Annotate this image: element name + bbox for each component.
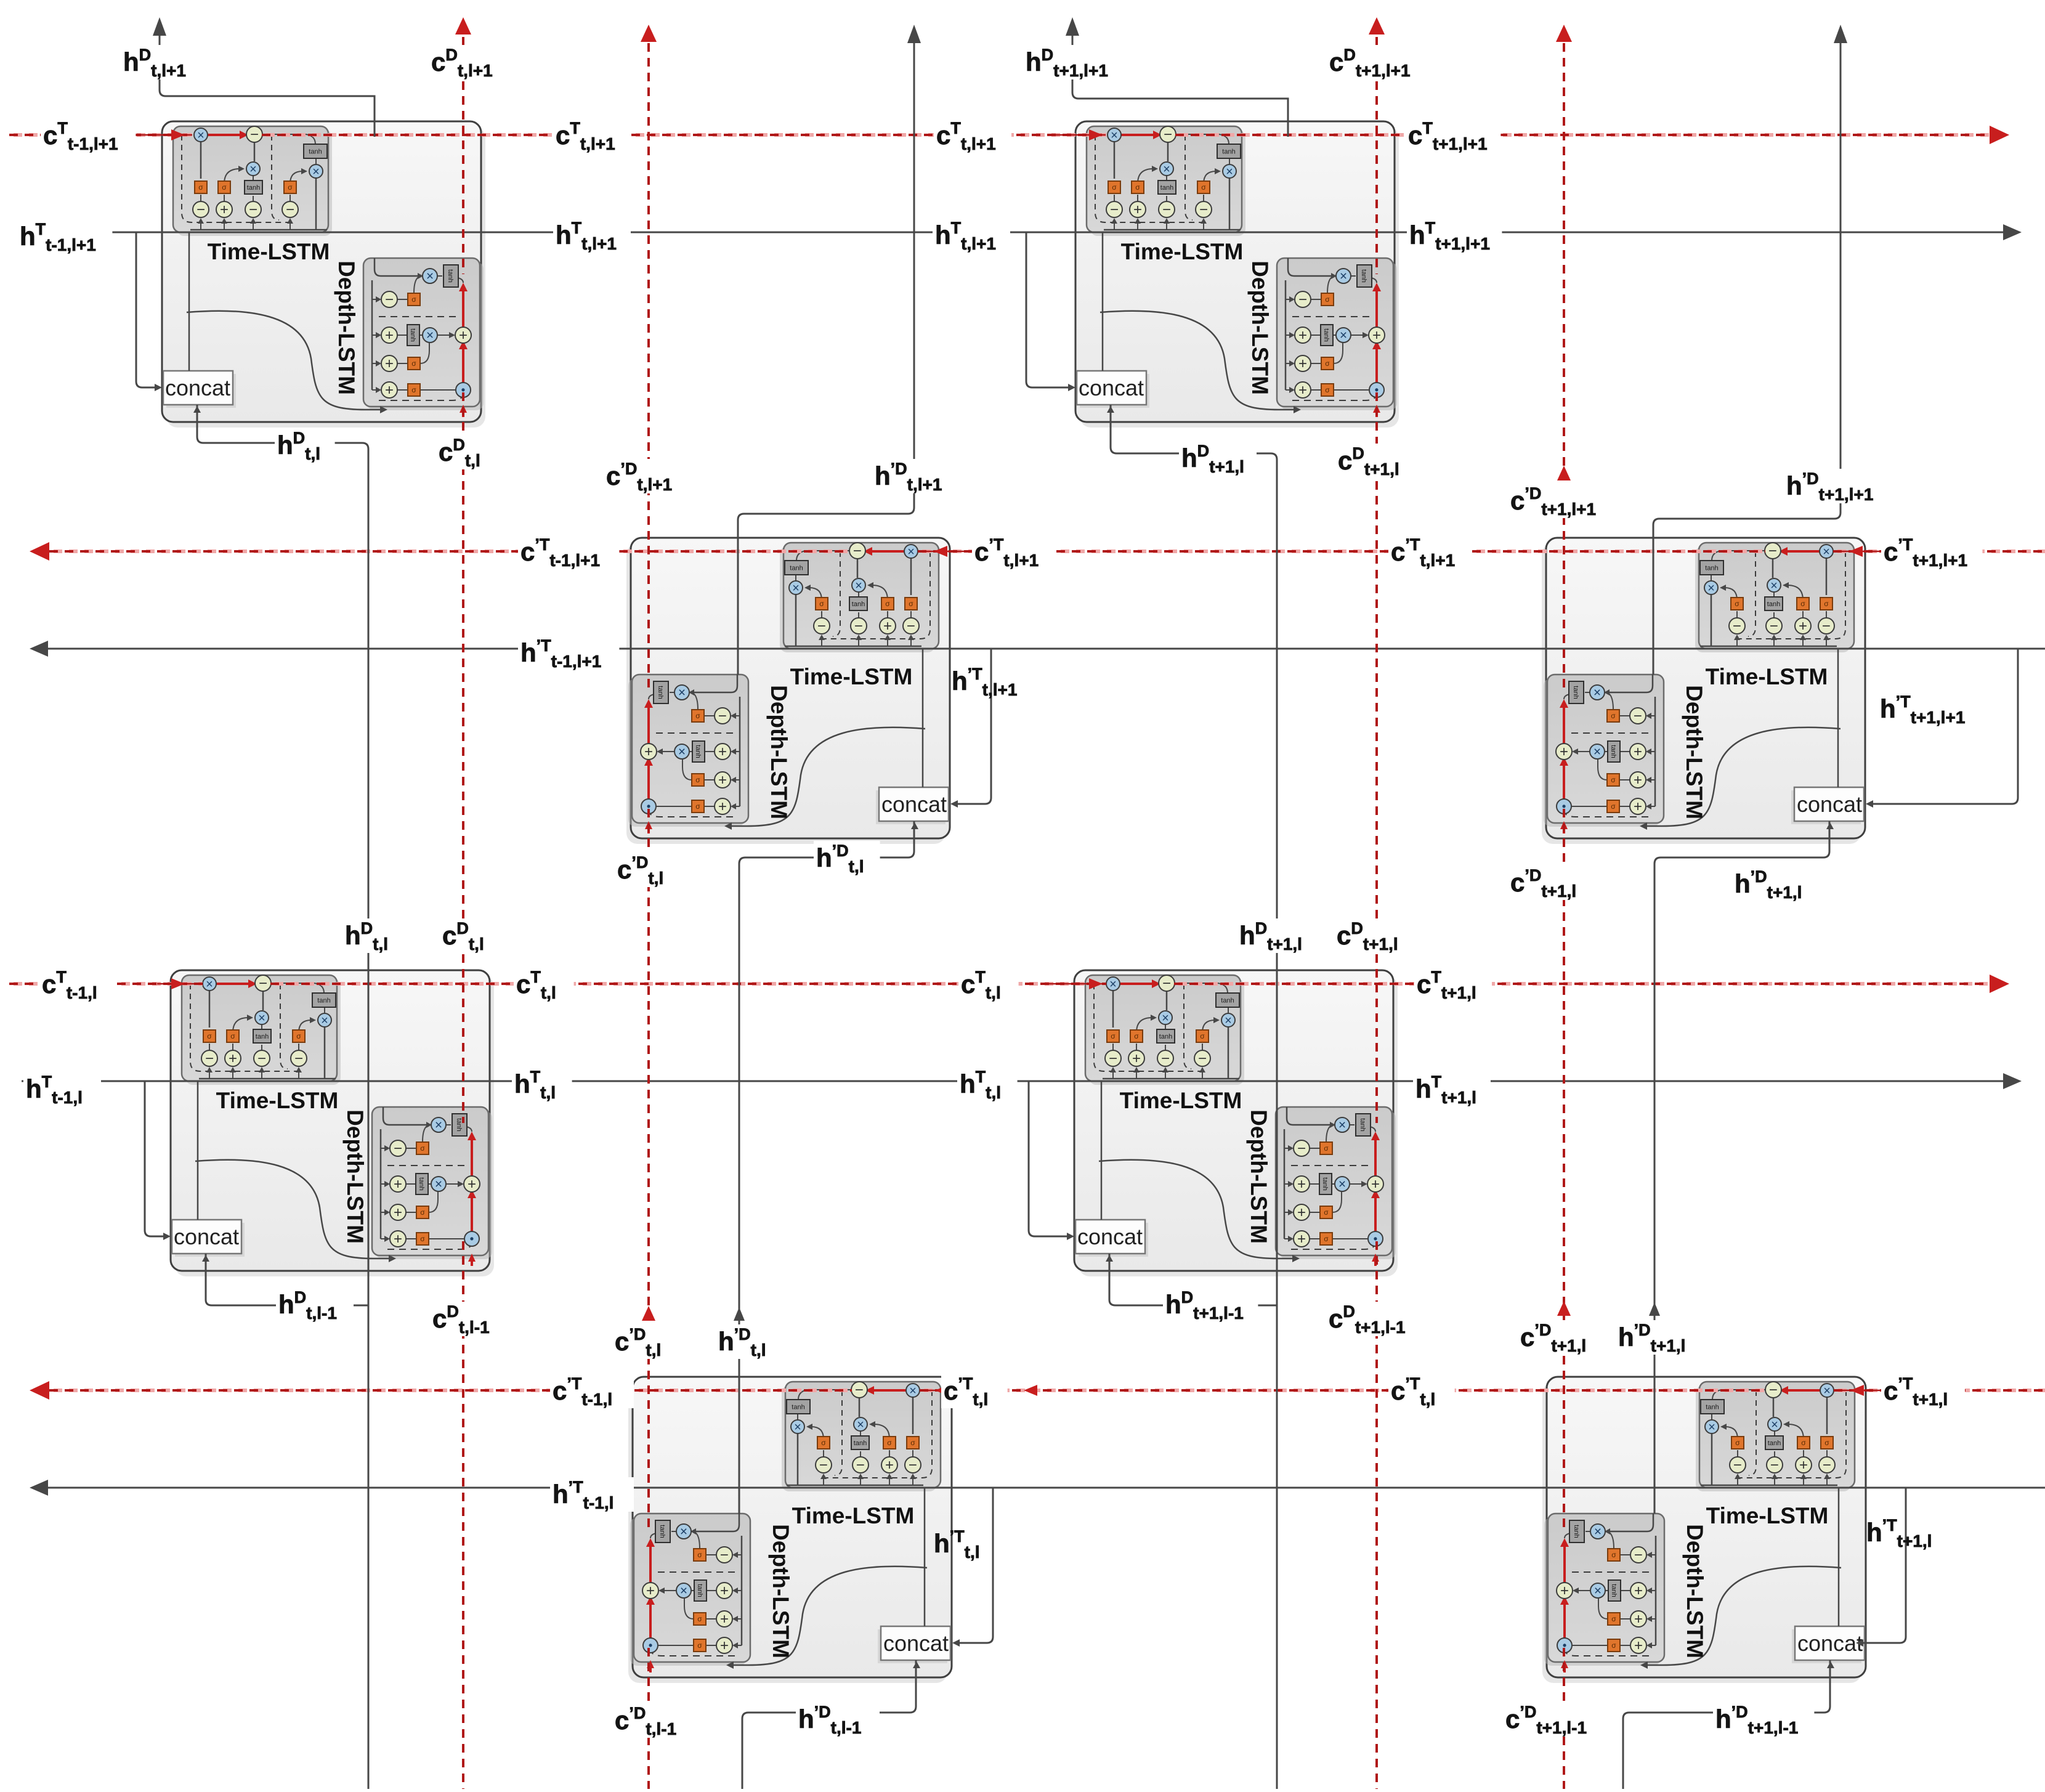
cell C Time-LSTM caption: [790, 664, 913, 689]
svg-text:Depth-LSTM: Depth-LSTM: [766, 685, 792, 819]
cell B Depth-LSTM caption: [1247, 261, 1273, 395]
node label c-prime-D t,l+1 (above cell C): [604, 459, 687, 494]
net label h-prime-D t,l-1 (bottom, below cell G): [796, 1702, 880, 1737]
svg-text:σ: σ: [288, 183, 293, 192]
output stub h-D above cell B with arrow: [1066, 17, 1288, 137]
svg-text:Time-LSTM: Time-LSTM: [1706, 1503, 1829, 1528]
net label h-prime-D t+1,l-1 (bottom, below cell H): [1713, 1702, 1814, 1737]
net label h-prime-D t+1,l (below cell D): [1732, 867, 1816, 902]
net label h-prime-T t-1,l+1 (row 2 left): [518, 636, 619, 671]
net label c-D t,l-1 (below cell E): [430, 1302, 508, 1337]
svg-text:σ: σ: [1324, 1208, 1329, 1217]
svg-text:σ: σ: [1611, 776, 1616, 784]
LSTM cell block D (reverse-direction Time-LSTM / Depth-LSTM unit): [1542, 538, 1865, 844]
red approach wire into cell G: [922, 1390, 942, 1392]
svg-text:concat: concat: [1797, 1631, 1863, 1656]
red arrowhead entering cell F: [1089, 978, 1103, 989]
svg-text:Depth-LSTM: Depth-LSTM: [1247, 261, 1273, 395]
svg-text:concat: concat: [881, 792, 947, 817]
svg-text:tanh: tanh: [658, 1525, 666, 1538]
node label c-D t,l+1 (top of cell A): [429, 45, 506, 80]
net label h-prime-T t+1,l+1 (hangs below row 2): [1880, 692, 1965, 727]
wire c-prime-T row 4 (cell state, dashed red, reverse): [30, 1381, 2045, 1400]
cell E Time-LSTM caption: [216, 1088, 339, 1113]
svg-text:σ: σ: [1325, 386, 1330, 394]
cell A tanh gate captions: [198, 148, 454, 395]
svg-text:σ: σ: [420, 1235, 425, 1243]
net label c-prime-T t,l+1 (row 2 left of cell D): [1388, 535, 1472, 570]
net label h-prime-D t+1,l (above cell H): [1616, 1320, 1699, 1355]
net label c-T t-1,l (row 3 left): [39, 967, 117, 1002]
svg-text:tanh: tanh: [854, 1440, 867, 1447]
svg-text:tanh: tanh: [317, 997, 330, 1005]
svg-text:σ: σ: [1201, 183, 1206, 192]
svg-text:σ: σ: [1134, 1032, 1139, 1040]
svg-text:tanh: tanh: [418, 1177, 425, 1190]
red approach wire into cell F: [1047, 983, 1104, 985]
svg-text:σ: σ: [230, 1032, 235, 1040]
net label c-D t+1,l (below cell B): [1335, 444, 1413, 479]
net label h-prime-T t,l (hangs below row 4): [934, 1527, 980, 1562]
dark up-arrow on h-prime-D t+1 line above cell H label: [1649, 1302, 1660, 1316]
svg-text:Depth-LSTM: Depth-LSTM: [342, 1109, 368, 1244]
cell G Time-LSTM caption: [792, 1503, 915, 1528]
red up-arrow on c-prime-D t line above cell G label: [642, 1306, 655, 1321]
svg-text:σ: σ: [1325, 295, 1330, 304]
LSTM cell block C (reverse-direction Time-LSTM / Depth-LSTM unit): [626, 538, 950, 844]
net label c-T t+1,l+1 (row 1, right of cell B): [1406, 118, 1500, 153]
svg-text:tanh: tanh: [1360, 269, 1367, 282]
wire h-T row 3 (left-to-right hidden state, layer l): [22, 1073, 2022, 1089]
wire h-T input branch into concat of cell E: [145, 1081, 171, 1240]
svg-text:σ: σ: [420, 1144, 425, 1153]
svg-text:σ: σ: [420, 1208, 425, 1217]
svg-text:σ: σ: [697, 1551, 702, 1559]
svg-text:Time-LSTM: Time-LSTM: [1120, 1088, 1242, 1113]
net label c-prime-T t,l (row 4 left of cell H): [1388, 1374, 1455, 1409]
svg-text:Depth-LSTM: Depth-LSTM: [1682, 1524, 1707, 1658]
wire h-prime-T input branch into concat of cell C: [950, 649, 991, 808]
node label c-prime-D t+1,l+1 (above cell D): [1508, 484, 1609, 519]
net label c-D t+1,l-1 (below cell F): [1326, 1302, 1421, 1337]
svg-text:σ: σ: [222, 183, 227, 192]
svg-text:σ: σ: [1324, 1144, 1329, 1153]
wire h-D column t+1 (depth hidden state, gray vertical): [1111, 405, 1277, 1789]
svg-text:σ: σ: [411, 295, 416, 304]
wire h-prime-D between cells C and G: [739, 821, 914, 1514]
svg-text:tanh: tanh: [1572, 686, 1579, 699]
red arrowhead entering reverse cell H: [1850, 1385, 1864, 1396]
net label c-prime-T t,l+1 (row 2 right of cell C): [972, 535, 1056, 570]
net label h-D t+1,l (above cell F): [1237, 918, 1314, 954]
svg-text:tanh: tanh: [447, 269, 454, 282]
node label c-D t+1,l+1 (top of cell B): [1327, 45, 1422, 80]
svg-text:σ: σ: [697, 1641, 702, 1650]
net label c-prime-D t,l-1 (bottom, below cell G): [612, 1703, 696, 1738]
LSTM cell block A (forward Time-LSTM / Depth-LSTM unit): [162, 121, 485, 428]
svg-text:σ: σ: [1611, 802, 1616, 811]
net label h-T t-1,l (row 3 left): [23, 1072, 101, 1107]
cell B concat box caption: [1079, 375, 1144, 400]
wire c-D column t (red dashed vertical): [455, 17, 471, 1789]
svg-text:tanh: tanh: [1705, 565, 1718, 572]
cell A concat box caption: [165, 375, 230, 400]
red arrowhead entering reverse cell C: [934, 546, 1036, 557]
red arrowhead entering cell E: [171, 978, 185, 989]
cell E Depth-LSTM caption: [342, 1109, 368, 1244]
svg-text:tanh: tanh: [309, 148, 322, 156]
cell G concat box caption: [883, 1631, 949, 1656]
wire h-T input branch into concat of cell F: [1029, 1081, 1074, 1240]
svg-text:tanh: tanh: [657, 686, 664, 699]
svg-text:tanh: tanh: [696, 1584, 703, 1597]
cell F tanh gate captions: [1111, 997, 1366, 1244]
net label c-D t+1,l (above cell F): [1334, 918, 1412, 954]
svg-text:σ: σ: [1135, 183, 1140, 192]
svg-text:σ: σ: [885, 599, 890, 608]
cell H Time-LSTM caption: [1706, 1503, 1829, 1528]
net label h-prime-D t,l (above cell G): [716, 1324, 782, 1360]
cell H Depth-LSTM caption: [1682, 1524, 1707, 1658]
net label h-T t+1,l+1 (row 1, right of cell B): [1407, 218, 1502, 253]
red up-arrow on c-prime-D t+1 line above its label: [1557, 466, 1571, 480]
wire h-T row 1 (left-to-right hidden state, layer l+1): [22, 224, 2022, 240]
net label h-T t,l+1 (row 1, left of cell B): [933, 218, 1010, 253]
svg-text:concat: concat: [165, 375, 230, 400]
net label h-D t+1,l-1 (below cell F): [1163, 1287, 1258, 1323]
net label h-T t,l+1 (row 1, right of cell A): [553, 218, 631, 253]
svg-text:Time-LSTM: Time-LSTM: [1706, 664, 1828, 689]
svg-text:σ: σ: [910, 1438, 915, 1447]
net label c-prime-D t,l (below cell C): [615, 853, 681, 888]
svg-text:Time-LSTM: Time-LSTM: [1121, 239, 1244, 264]
node label h-prime-D t+1,l+1 (above cell D): [1784, 469, 1885, 504]
wire h-D column t (depth hidden state, gray vertical): [197, 405, 368, 1789]
svg-text:concat: concat: [1797, 792, 1862, 817]
net label h-D t,l (above cell E): [342, 918, 403, 954]
net label c-D t,l (below cell A): [436, 435, 496, 470]
net label c-T t,l+1 (row 1, left of cell B): [934, 118, 1011, 153]
svg-text:tanh: tanh: [1221, 997, 1234, 1005]
net label h-T t,l (row 3 left of cell F): [957, 1067, 1018, 1102]
cell F concat box caption: [1077, 1224, 1143, 1249]
cell G Depth-LSTM caption: [768, 1524, 793, 1658]
net label c-prime-D t+1,l-1 (bottom, below cell H): [1503, 1702, 1604, 1737]
net label c-prime-T t-1,l (row 4 left of cell G): [550, 1374, 634, 1409]
net label c-T t,l+1 (row 1, right of cell A): [553, 118, 631, 153]
red arrowhead entering reverse cell G: [935, 1385, 1037, 1396]
svg-text:tanh: tanh: [852, 601, 865, 608]
wire h-T input branch into concat of cell A: [136, 232, 162, 391]
svg-text:σ: σ: [695, 776, 700, 784]
net label c-prime-D t+1,l (below cell D): [1508, 866, 1592, 901]
svg-text:tanh: tanh: [1160, 184, 1173, 192]
wire from concat of cell E down to h-D column: [206, 1254, 368, 1305]
svg-text:tanh: tanh: [1159, 1033, 1172, 1040]
svg-text:σ: σ: [695, 712, 700, 720]
cell E tanh gate captions: [207, 997, 463, 1244]
LSTM cell block B (forward Time-LSTM / Depth-LSTM unit): [1075, 121, 1399, 428]
cell C tanh gate captions: [657, 565, 913, 811]
svg-text:tanh: tanh: [792, 1404, 804, 1411]
svg-text:tanh: tanh: [1222, 148, 1235, 156]
wire h-prime-D between cells D and H: [1654, 821, 1829, 1514]
net label c-T t,l (row 3, right of cell E): [514, 967, 574, 1002]
svg-text:σ: σ: [1200, 1032, 1205, 1040]
wire c-prime-D column t+1 (red dashed vertical): [1556, 25, 1572, 1789]
svg-text:σ: σ: [1800, 599, 1805, 608]
net label c-prime-D t,l (above cell G): [612, 1324, 679, 1360]
cell D concat box caption: [1797, 792, 1862, 817]
red approach wire into cell E: [157, 983, 201, 985]
node label h-D t,l+1 (top of cell A): [121, 45, 198, 80]
cell B Time-LSTM caption: [1121, 239, 1244, 264]
svg-text:Time-LSTM: Time-LSTM: [790, 664, 913, 689]
svg-text:σ: σ: [1824, 1438, 1829, 1447]
node label h-prime-D t,l+1 (above cell C): [872, 459, 956, 494]
cell B tanh gate captions: [1112, 148, 1367, 395]
net label c-T t-1,l+1 (row 1 left): [41, 118, 136, 153]
LSTM cell block G (reverse-direction Time-LSTM / Depth-LSTM unit): [628, 1377, 952, 1683]
svg-text:Depth-LSTM: Depth-LSTM: [1682, 685, 1707, 819]
cell D tanh gate captions: [1572, 565, 1829, 811]
LSTM cell block H (reverse-direction Time-LSTM / Depth-LSTM unit): [1542, 1377, 1866, 1683]
cell D Time-LSTM caption: [1706, 664, 1828, 689]
svg-text:σ: σ: [819, 599, 824, 608]
svg-text:σ: σ: [1611, 1641, 1616, 1650]
svg-text:tanh: tanh: [1359, 1118, 1366, 1131]
svg-text:σ: σ: [207, 1032, 212, 1040]
svg-text:concat: concat: [174, 1224, 239, 1249]
svg-text:tanh: tanh: [1706, 1404, 1719, 1411]
wire h-prime-T input branch into concat of cell D: [1866, 649, 2018, 808]
cell E concat box caption: [174, 1224, 239, 1249]
svg-text:Time-LSTM: Time-LSTM: [792, 1503, 915, 1528]
wire from concat of cell F down to h-D column t+1: [1109, 1254, 1277, 1305]
wire h-prime-T row 2 (right-to-left hidden state, layer l+1): [30, 641, 2045, 657]
svg-text:tanh: tanh: [1322, 328, 1330, 341]
svg-text:σ: σ: [1325, 359, 1330, 368]
cell C Depth-LSTM caption: [766, 685, 792, 819]
svg-text:σ: σ: [1735, 599, 1739, 608]
wire h-T input branch into concat of cell B: [1026, 232, 1075, 391]
svg-text:σ: σ: [296, 1032, 301, 1040]
svg-text:Depth-LSTM: Depth-LSTM: [768, 1524, 793, 1658]
wire c-T row 3 (cell state, dashed red, layer l): [9, 975, 2009, 993]
cell A Depth-LSTM caption: [334, 261, 359, 395]
net label c-D t,l (above cell E): [440, 918, 500, 954]
svg-text:concat: concat: [1077, 1224, 1143, 1249]
wire c-prime-D column t (red dashed vertical): [641, 25, 657, 1789]
svg-text:Depth-LSTM: Depth-LSTM: [1246, 1109, 1271, 1244]
svg-text:tanh: tanh: [1767, 601, 1780, 608]
svg-text:tanh: tanh: [256, 1033, 269, 1040]
wire h-prime-D below cell G to bottom: [742, 1660, 916, 1789]
cell A Time-LSTM caption: [208, 239, 330, 264]
red arrowhead entering cell B: [1089, 129, 1103, 140]
svg-text:σ: σ: [1801, 1438, 1806, 1447]
wire c-prime-T row 2 (cell state, dashed red, reverse): [30, 542, 2045, 561]
wire h-prime-D column t (gray, from top arrow into cell C depth box): [738, 25, 921, 675]
svg-text:tanh: tanh: [1610, 745, 1617, 758]
svg-text:σ: σ: [411, 386, 416, 394]
svg-text:concat: concat: [883, 1631, 949, 1656]
net label c-prime-T t-1,l+1 (row 2 left of cell C): [518, 535, 619, 570]
svg-text:σ: σ: [695, 802, 700, 811]
net label c-prime-T t+1,l (row 4 right of cell H): [1881, 1374, 1965, 1409]
svg-text:σ: σ: [1324, 1235, 1329, 1243]
cell F Time-LSTM caption: [1120, 1088, 1242, 1113]
red approach wire into cell A: [138, 134, 192, 136]
svg-text:tanh: tanh: [694, 745, 702, 758]
cell D Depth-LSTM caption: [1682, 685, 1707, 819]
red approach wire into cell C: [920, 551, 973, 553]
net label h-prime-T t,l+1 (hangs below row 2): [952, 665, 1017, 699]
net label h-T t+1,l (row 3 right of cell F): [1413, 1072, 1491, 1107]
cell G tanh gate captions: [658, 1404, 915, 1650]
svg-text:concat: concat: [1079, 375, 1144, 400]
svg-text:σ: σ: [1611, 1615, 1616, 1623]
red arrowhead entering reverse cell D: [1849, 546, 1863, 557]
svg-text:σ: σ: [1735, 1438, 1740, 1447]
red approach wire into cell H: [1837, 1390, 1882, 1392]
net label h-prime-T t-1,l (row 4 left): [550, 1477, 634, 1512]
svg-text:σ: σ: [887, 1438, 892, 1447]
wire h-prime-T input branch into concat of cell H: [1856, 1488, 1906, 1647]
net label c-prime-D t+1,l (above cell H): [1518, 1320, 1602, 1355]
svg-text:tanh: tanh: [1610, 1584, 1618, 1597]
net label h-D t,l-1 (below cell E): [276, 1287, 354, 1323]
svg-text:tanh: tanh: [1321, 1177, 1329, 1190]
svg-text:Time-LSTM: Time-LSTM: [216, 1088, 339, 1113]
net label c-T t+1,l (row 3, right of cell F): [1414, 967, 1492, 1002]
svg-text:tanh: tanh: [455, 1118, 463, 1131]
svg-text:σ: σ: [1111, 1032, 1116, 1040]
svg-text:σ: σ: [1611, 712, 1616, 720]
output stub h-D above cell A with arrow: [153, 17, 375, 137]
LSTM cell block E (forward Time-LSTM / Depth-LSTM unit): [171, 970, 494, 1276]
net label h-prime-T t+1,l (hangs below row 4): [1866, 1516, 1932, 1551]
svg-text:σ: σ: [198, 183, 203, 192]
dark up-arrow on h-prime-D t line above cell G label: [734, 1307, 745, 1321]
net label h-T t,l (row 3 right of cell E): [512, 1067, 572, 1102]
svg-text:tanh: tanh: [1768, 1440, 1781, 1447]
svg-text:tanh: tanh: [790, 565, 803, 572]
net label c-T t,l (row 3, left of cell F): [958, 967, 1019, 1002]
red arrowhead entering cell A: [171, 129, 185, 140]
svg-text:σ: σ: [697, 1615, 702, 1623]
red up-arrow on c-prime-D t+1 line above cell H label: [1557, 1301, 1571, 1316]
svg-text:σ: σ: [1112, 183, 1117, 192]
node label h-D t+1,l+1 (top of cell B): [1023, 45, 1118, 80]
svg-text:Time-LSTM: Time-LSTM: [208, 239, 330, 264]
svg-text:σ: σ: [1824, 599, 1829, 608]
net label c-prime-T t,l (row 4 right of cell G): [941, 1374, 1008, 1409]
svg-text:σ: σ: [909, 599, 913, 608]
wire c-T row 1 (cell state, dashed red, layer l+1): [9, 126, 2009, 144]
svg-text:tanh: tanh: [247, 184, 260, 192]
svg-text:Depth-LSTM: Depth-LSTM: [334, 261, 359, 395]
svg-text:tanh: tanh: [409, 328, 416, 341]
cell F Depth-LSTM caption: [1246, 1109, 1271, 1244]
LSTM cell block F (forward Time-LSTM / Depth-LSTM unit): [1074, 970, 1398, 1276]
red approach wire into cell D: [1836, 551, 1882, 553]
cell C concat box caption: [881, 792, 947, 817]
svg-text:σ: σ: [411, 359, 416, 368]
net label h-D t+1,l (below cell B): [1179, 441, 1257, 476]
wire h-prime-T input branch into concat of cell G: [952, 1488, 993, 1647]
net label c-prime-T t+1,l+1 (row 2 right of cell D): [1881, 535, 1982, 570]
svg-text:σ: σ: [1611, 1551, 1616, 1559]
net label h-T t-1,l+1 (row 1 left): [17, 219, 112, 254]
cell H tanh gate captions: [1573, 1404, 1829, 1650]
red approach wire into cell B: [1051, 134, 1106, 136]
net label h-prime-D t,l (below cell C): [814, 841, 880, 876]
svg-text:tanh: tanh: [1573, 1525, 1580, 1538]
svg-text:σ: σ: [821, 1438, 826, 1447]
wire h-prime-D below cell H to bottom: [1623, 1660, 1830, 1789]
net label h-D t,l (below cell A): [275, 428, 335, 463]
wire h-prime-T row 4 (right-to-left hidden state, layer l): [30, 1480, 2045, 1496]
cell H concat box caption: [1797, 1631, 1863, 1656]
wire h-prime-D column t+1 (gray, from top arrow into cell D depth box): [1653, 25, 1847, 675]
wire c-D column t+1 (red dashed vertical): [1369, 17, 1385, 1789]
